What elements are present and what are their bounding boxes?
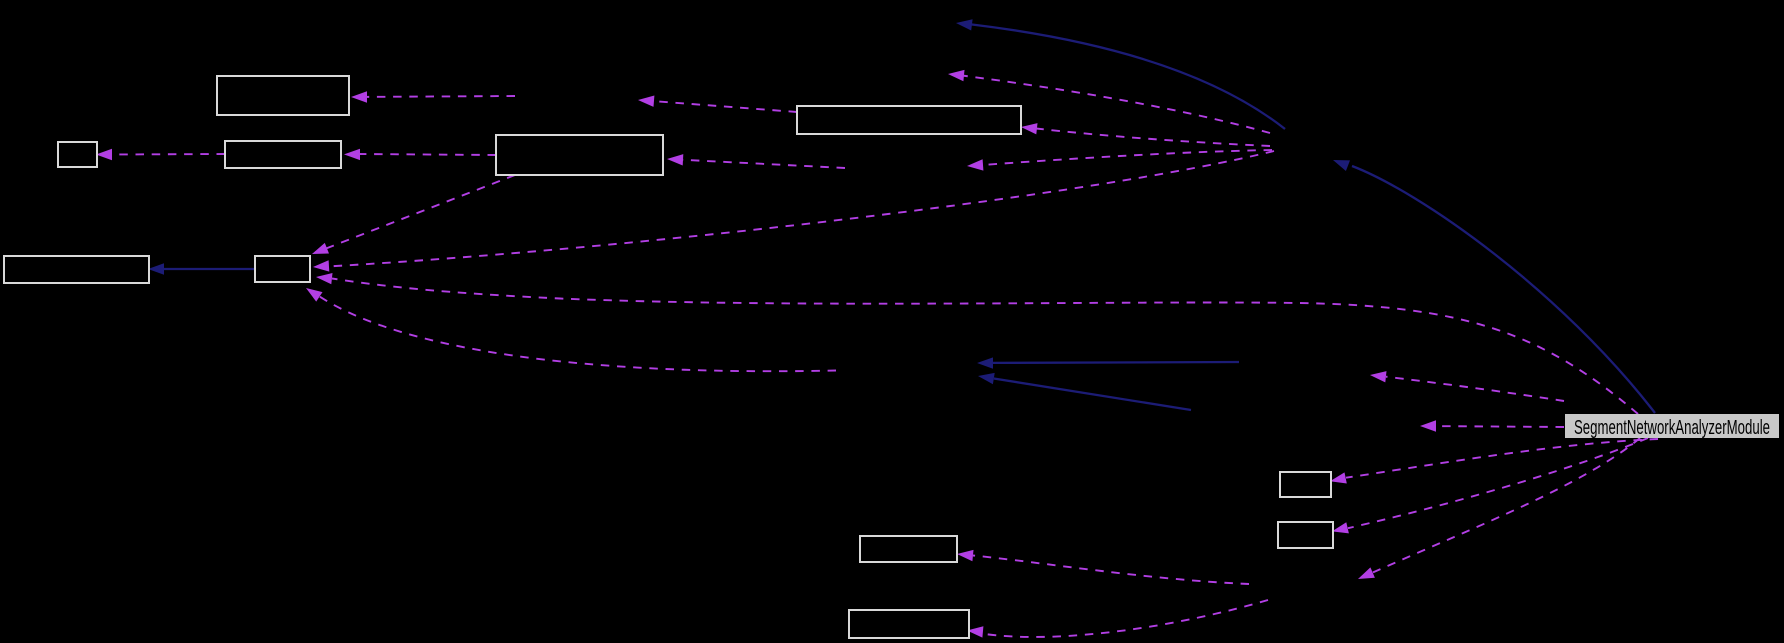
svg-text:SegmentNetworkAnalyzerModule: SegmentNetworkAnalyzerModule: [1574, 416, 1770, 439]
